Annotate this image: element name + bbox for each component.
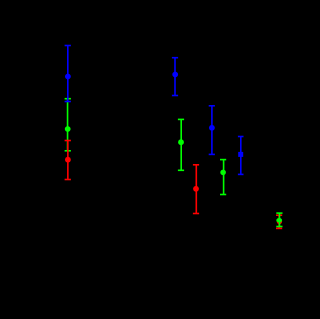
red errorbar point 2	[193, 165, 199, 214]
green errorbar point 3	[220, 160, 226, 195]
green errorbar point 4 (right cluster, drawn over red)	[276, 213, 282, 226]
blue errorbar point 3	[209, 106, 215, 155]
green errorbar point 1 (left cluster)	[65, 99, 71, 151]
blue errorbar point 4 (square marker)	[238, 137, 244, 175]
green errorbar point 2	[178, 119, 184, 170]
blue errorbar point 2	[172, 58, 178, 96]
red errorbar point 1 (left cluster)	[65, 141, 71, 180]
red errorbar point 3 (right cluster, drawn under green)	[276, 215, 282, 228]
blue errorbar point 1 (left cluster)	[65, 46, 71, 102]
